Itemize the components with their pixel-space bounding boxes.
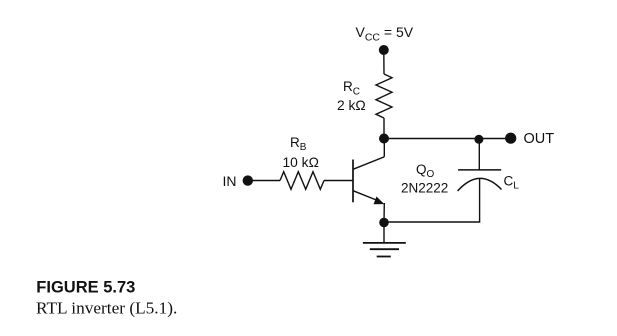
transistor Q1 2N2222 (353, 157, 448, 205)
svg-text:VCC = 5V: VCC = 5V (356, 24, 414, 44)
svg-text:OUT: OUT (524, 131, 555, 147)
node A (collector node) (379, 134, 389, 144)
svg-text:IN: IN (223, 173, 237, 189)
svg-text:CL: CL (504, 174, 520, 192)
svg-text:FIGURE 5.73: FIGURE 5.73 (36, 279, 135, 297)
svg-text:2N2222: 2N2222 (401, 180, 448, 195)
OUT terminal (505, 131, 554, 147)
wire node B to capacitor bottom (384, 179, 480, 222)
svg-text:RB: RB (290, 135, 307, 153)
wire node A tap to capacitor top (478, 139, 480, 170)
wire IN to RB (247, 180, 280, 182)
wire VCC to RC (383, 50, 385, 74)
resistor RB (280, 135, 324, 189)
wire RC to node A (383, 118, 385, 139)
svg-text:2 kΩ: 2 kΩ (337, 98, 366, 113)
capacitor CL (458, 170, 520, 192)
node B (emitter node) (379, 218, 389, 228)
power terminal VCC (356, 24, 414, 55)
IN terminal (223, 173, 254, 189)
wire node B to ground (383, 223, 385, 243)
wire node A to OUT (384, 138, 511, 140)
wire collector to node A (383, 139, 385, 157)
wire emitter to node B (383, 203, 385, 223)
svg-text:RTL inverter (L5.1).: RTL inverter (L5.1). (36, 299, 177, 318)
svg-text:QO: QO (416, 162, 435, 180)
wire RB to base (324, 180, 353, 182)
node C (capacitor tap) (474, 135, 483, 144)
resistor RC (337, 74, 392, 118)
svg-text:10 kΩ: 10 kΩ (283, 155, 319, 170)
svg-text:RC: RC (343, 79, 360, 97)
ground (363, 243, 406, 257)
